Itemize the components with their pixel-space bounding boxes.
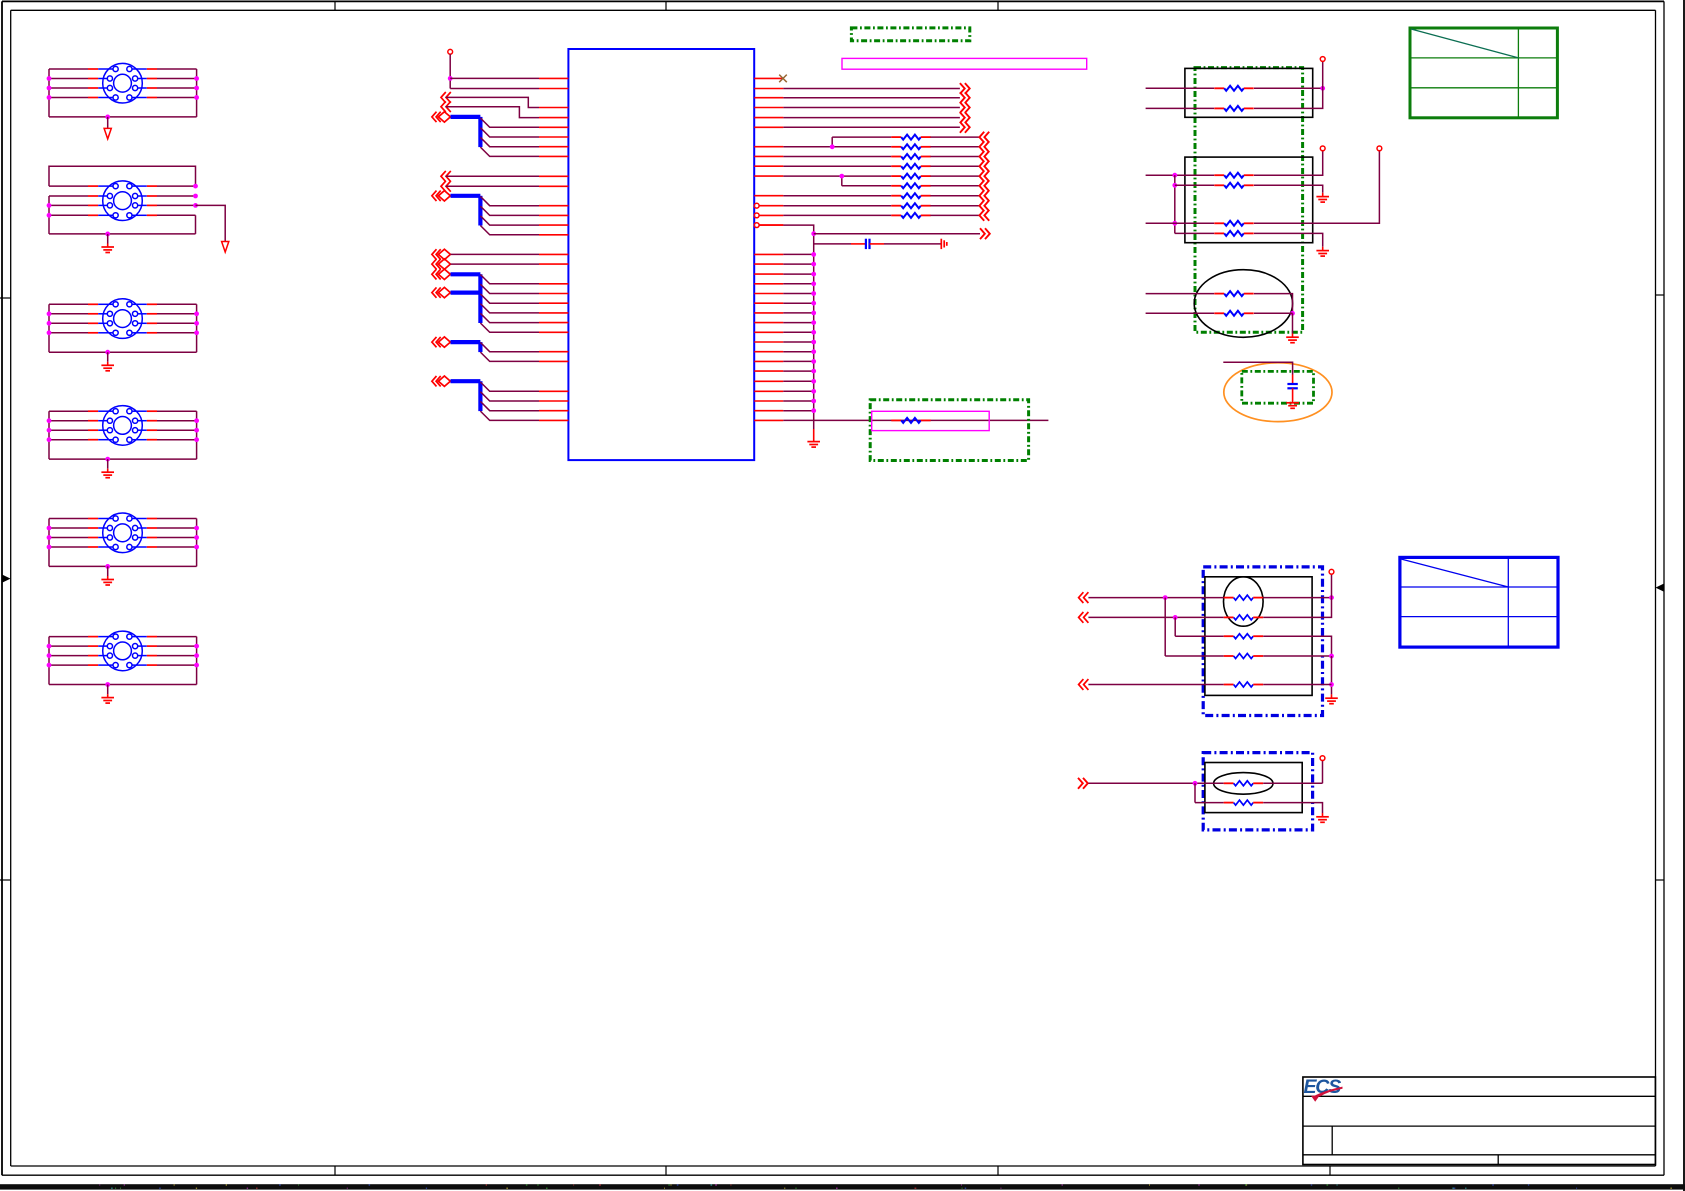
sheet border inner bottom	[11, 1165, 1656, 1167]
page bottom bar	[0, 1184, 1685, 1189]
bus wire vertical	[478, 117, 482, 147]
wire T6 left edge	[48, 637, 50, 685]
wire	[1263, 684, 1331, 686]
wire T2 row2	[49, 195, 196, 197]
wire	[446, 185, 539, 187]
wire	[446, 97, 539, 107]
ground	[1325, 698, 1338, 704]
wire fan	[480, 196, 539, 205]
resistor RN1b	[1214, 106, 1253, 111]
resistor RN4b	[1224, 615, 1263, 620]
wire fan	[480, 294, 539, 303]
wire T5 row2	[49, 527, 197, 529]
wire red tail	[1322, 813, 1324, 816]
wire T6 gnd stem	[107, 685, 109, 698]
resistor RN2c	[1214, 221, 1253, 226]
junction T5	[194, 545, 199, 550]
off-page connector in	[432, 259, 451, 269]
wire red tail	[1292, 333, 1294, 336]
pin stub left	[539, 312, 568, 314]
wire	[783, 322, 813, 324]
pin stub left	[539, 175, 568, 177]
junction	[811, 301, 816, 306]
junction	[1320, 86, 1325, 91]
pin stub left	[539, 185, 568, 187]
off-page connector out	[960, 112, 970, 123]
bus wire	[451, 115, 481, 119]
pin stub left	[539, 322, 568, 324]
pin circle right	[754, 203, 759, 208]
wire	[1088, 684, 1223, 686]
junction	[811, 272, 816, 277]
wire T3 row4	[49, 332, 197, 334]
junction T4	[47, 418, 52, 423]
off-page connector in	[979, 171, 989, 182]
wire	[1254, 87, 1323, 89]
wire T4 left edge	[48, 411, 50, 459]
highlight ellipse orange	[1224, 363, 1332, 422]
wire T2 bottom edge	[49, 233, 196, 235]
wire	[930, 136, 979, 138]
resistor RN1a	[1214, 86, 1253, 91]
pin stub right	[754, 302, 783, 304]
wire	[930, 214, 979, 216]
pin stub right	[754, 117, 783, 119]
resistor RN4c	[1224, 634, 1263, 639]
wire T5 row3	[49, 537, 197, 539]
pin stub left	[539, 234, 568, 236]
pin stub left	[539, 302, 568, 304]
ground T3	[101, 365, 114, 371]
junction T6	[47, 644, 52, 649]
off-page connector out arrow	[1078, 778, 1088, 789]
bus wire vertical	[478, 342, 482, 352]
wire jog	[841, 176, 843, 186]
wire T6 row1	[49, 636, 197, 638]
junction T3	[194, 321, 199, 326]
wire	[783, 312, 813, 314]
pin stub right	[754, 351, 783, 353]
wire	[783, 253, 813, 255]
junction	[1172, 173, 1177, 178]
junction T3	[47, 330, 52, 335]
power tap circle	[1320, 57, 1325, 62]
sheet border outer right	[1663, 1, 1665, 1175]
resistor ladder R8	[891, 203, 930, 208]
off-page connector in	[979, 141, 989, 152]
junction T1	[47, 95, 52, 100]
off-page connector out	[960, 102, 970, 113]
magnetics choke T2	[103, 181, 143, 221]
IC U1 body	[568, 49, 754, 460]
ground	[1286, 337, 1299, 343]
junction	[811, 330, 816, 335]
pin stub right	[754, 380, 783, 382]
pin stub right	[754, 341, 783, 343]
wire T6 right edge	[196, 637, 198, 685]
pin stub left	[539, 146, 568, 148]
wire jog	[831, 137, 833, 147]
pin stub left	[539, 224, 568, 226]
power arrow T2 side	[222, 242, 229, 253]
wire T6 row3	[49, 655, 197, 657]
wire	[783, 370, 813, 372]
wire fan	[480, 392, 539, 401]
DNP box green	[851, 28, 969, 41]
wire	[1263, 803, 1322, 813]
wire cap lead	[870, 243, 885, 245]
off-page connector in	[979, 210, 989, 221]
ground T2	[101, 247, 114, 253]
ground	[1316, 817, 1329, 823]
junction T2	[193, 184, 198, 189]
wire left common	[1174, 175, 1176, 233]
wire fan	[480, 216, 539, 225]
wire T5 gnd stem	[107, 566, 109, 579]
zone tick top	[665, 1, 667, 10]
bus wire	[451, 194, 481, 198]
resistor pack RN5 box	[1205, 763, 1302, 813]
wire	[832, 136, 891, 138]
wire	[1146, 293, 1215, 295]
resistor pack RN3 ellipse	[1194, 270, 1292, 338]
junction T6	[194, 644, 199, 649]
pin stub left	[539, 136, 568, 138]
power tap circle	[1320, 756, 1325, 761]
wire	[1263, 655, 1331, 657]
ground	[1316, 197, 1329, 203]
resistor pack RN5 ellipse	[1214, 773, 1273, 795]
wire	[930, 195, 979, 197]
resistor series R10	[891, 418, 930, 423]
wire	[1254, 312, 1293, 314]
off-page connector in	[979, 132, 989, 143]
wire T3 gnd stem	[107, 352, 109, 365]
wire out	[783, 117, 960, 119]
wire fan	[480, 284, 539, 293]
pin stub left	[539, 107, 568, 109]
wire	[1165, 655, 1224, 657]
resistor RN2a	[1214, 173, 1253, 178]
junction T4 gnd	[105, 457, 110, 462]
table green	[1410, 28, 1557, 118]
wire	[783, 175, 891, 177]
resistor ladder R6	[891, 183, 930, 188]
sheet border outer left	[1, 1, 3, 1175]
off-page connector bus	[432, 337, 451, 347]
junction T2	[47, 203, 52, 208]
wire T6 row2	[49, 645, 197, 647]
pin stub left	[539, 214, 568, 216]
bus wire	[451, 291, 481, 295]
junction T2	[193, 203, 198, 208]
pin stub left	[539, 253, 568, 255]
junction	[811, 311, 816, 316]
wire red tail	[1331, 694, 1333, 697]
bus wire vertical	[478, 274, 482, 323]
wire	[814, 243, 851, 245]
wire	[930, 156, 979, 158]
wire	[1263, 598, 1331, 618]
pin stub right	[754, 283, 783, 285]
wire	[783, 331, 813, 333]
zone tick top	[334, 1, 336, 10]
wire out	[783, 88, 960, 90]
junction	[811, 369, 816, 374]
bus wire	[451, 379, 481, 383]
wire	[814, 233, 980, 235]
wire	[783, 146, 891, 148]
wire	[1175, 635, 1224, 637]
wire	[759, 224, 783, 226]
wire	[884, 243, 941, 245]
junction T6	[194, 663, 199, 668]
ground bus	[807, 442, 820, 448]
center marker arrow right	[1656, 584, 1665, 592]
junction T3	[194, 330, 199, 335]
junction T1	[194, 86, 199, 91]
junction T6	[47, 653, 52, 658]
junction T1 gnd	[105, 115, 110, 120]
wire T2 row1	[49, 185, 196, 187]
resistor pack RN4 box	[1205, 577, 1312, 696]
resistor RN4e	[1224, 682, 1263, 687]
wire fan	[480, 128, 539, 137]
junction T4	[194, 418, 199, 423]
junction	[1290, 311, 1295, 316]
wire	[1175, 232, 1214, 234]
pin stub right	[754, 155, 783, 157]
off-page connector in	[979, 190, 989, 201]
ground	[1316, 251, 1329, 257]
wire T5 row1	[49, 518, 197, 520]
wire T2 gnd stem	[107, 234, 109, 247]
pin stub left	[539, 88, 568, 90]
resistor RN2b	[1214, 183, 1253, 188]
junction T2	[193, 194, 198, 199]
junction	[811, 359, 816, 364]
junction	[811, 231, 816, 236]
junction	[811, 408, 816, 413]
pin stub left	[539, 331, 568, 333]
junction	[811, 340, 816, 345]
junction T5	[194, 526, 199, 531]
wire fan	[480, 401, 539, 410]
wire bus right	[783, 225, 813, 429]
junction T3	[47, 311, 52, 316]
wire T3 row1	[49, 303, 197, 305]
resistor ladder R2	[891, 144, 930, 149]
wire fan	[480, 323, 539, 332]
wire	[451, 263, 540, 265]
wire fan	[480, 382, 539, 391]
wire	[783, 273, 813, 275]
junction T4	[47, 437, 52, 442]
wire	[1223, 362, 1292, 374]
wire T5 left edge	[48, 519, 50, 567]
junction T1	[194, 76, 199, 81]
resistor pack RN1 box	[1185, 68, 1313, 117]
wire to pin	[450, 88, 539, 90]
power tap circle	[1329, 569, 1334, 574]
wire	[1331, 656, 1333, 694]
wire T2 row3	[49, 204, 196, 206]
pin stub right	[754, 273, 783, 275]
resistor RN3a	[1214, 291, 1253, 296]
wire T2 side branch	[196, 205, 226, 241]
wire	[930, 146, 979, 148]
wire	[1088, 782, 1223, 784]
wire	[1195, 802, 1224, 804]
junction	[830, 144, 835, 149]
wire fan	[480, 206, 539, 215]
wire	[930, 175, 979, 177]
junction T5	[194, 535, 199, 540]
pin stub left	[539, 390, 568, 392]
zone tick right	[1656, 294, 1665, 296]
wire	[446, 107, 539, 118]
wire T4 row2	[49, 420, 197, 422]
ground rotated	[941, 239, 947, 249]
off-page connector in	[441, 101, 451, 112]
page edge right	[1683, 0, 1685, 1191]
wire T5 bottom edge	[49, 565, 197, 567]
ECS logo	[1304, 1076, 1343, 1102]
junction T1	[47, 76, 52, 81]
wire	[1254, 151, 1379, 224]
wire	[783, 195, 891, 197]
junction	[448, 76, 453, 81]
wire T1 row4	[49, 97, 197, 99]
junction	[811, 320, 816, 325]
junction	[1163, 595, 1168, 600]
wire	[1254, 88, 1323, 108]
wire red tail	[1322, 247, 1324, 250]
off-page connector out	[960, 92, 970, 103]
magnetics choke T4	[103, 406, 143, 446]
pin stub right	[754, 360, 783, 362]
wire out	[783, 97, 960, 99]
termination box blue dash 1	[1203, 567, 1322, 716]
zone tick bottom	[665, 1166, 667, 1175]
power tap circle	[1320, 146, 1325, 151]
wire	[930, 165, 979, 167]
pin stub right	[754, 263, 783, 265]
resistor RN4a	[1224, 595, 1263, 600]
wire	[1263, 782, 1322, 784]
wire fan	[480, 275, 539, 284]
wire fan	[480, 342, 539, 351]
pin stub left	[539, 117, 568, 119]
sheet border inner top	[11, 9, 1656, 11]
wire T1 down stem	[107, 117, 109, 128]
wire T1 bottom edge	[49, 116, 197, 118]
DNP box green tall	[1195, 68, 1303, 333]
pin stub right	[759, 205, 783, 207]
pin stub left	[539, 205, 568, 207]
wire T4 gnd stem	[107, 459, 109, 472]
resistor pack RN2 box	[1185, 157, 1313, 243]
wire	[783, 341, 813, 343]
off-page connector bus	[432, 191, 451, 201]
ground	[1286, 403, 1299, 409]
junction T4	[47, 428, 52, 433]
wire out	[783, 126, 960, 128]
off-page connector in	[979, 151, 989, 162]
zone tick left	[0, 297, 11, 299]
pin stub left	[539, 351, 568, 353]
wire T2 top box	[49, 166, 196, 186]
wire	[783, 263, 813, 265]
power tap circle	[448, 49, 453, 54]
junction T3	[47, 321, 52, 326]
wire	[783, 351, 813, 353]
junction T4	[194, 428, 199, 433]
wire	[1088, 616, 1223, 618]
wire fan	[480, 313, 539, 322]
pin stub right	[754, 322, 783, 324]
wire	[842, 185, 892, 187]
wire T1 row2	[49, 78, 197, 80]
resistor ladder R7	[891, 193, 930, 198]
ground T6	[101, 698, 114, 704]
resistor RN5a	[1224, 781, 1263, 786]
wire long	[783, 419, 1048, 421]
power arrow T1	[104, 128, 111, 139]
junction T1	[47, 86, 52, 91]
wire fan	[480, 411, 539, 420]
off-page connector in	[979, 180, 989, 191]
wire	[783, 283, 813, 285]
junction	[1329, 682, 1334, 687]
wire pullup	[1331, 574, 1333, 597]
off-page connector out	[980, 228, 990, 239]
center marker arrow left	[2, 575, 11, 583]
wire T1 row3	[49, 87, 197, 89]
pin stub left	[539, 400, 568, 402]
junction T1	[194, 95, 199, 100]
junction T2	[47, 213, 52, 218]
net box pink 2	[872, 411, 990, 430]
wire to pin	[450, 77, 539, 79]
pin stub right	[754, 175, 783, 177]
wire	[783, 400, 813, 402]
junction	[811, 379, 816, 384]
junction	[811, 399, 816, 404]
magnetics choke T1	[103, 63, 143, 103]
wire	[1254, 151, 1323, 175]
off-page connector bus	[432, 376, 451, 386]
pin stub left	[539, 155, 568, 157]
off-page connector in	[441, 92, 451, 103]
off-page connector in	[979, 200, 989, 211]
junction	[1329, 654, 1334, 659]
junction	[811, 262, 816, 267]
junction T4	[194, 437, 199, 442]
junction	[1172, 221, 1177, 226]
off-page connector bus	[432, 269, 451, 279]
pin stub left	[539, 283, 568, 285]
junction T6 gnd	[105, 682, 110, 687]
off-page connector in	[441, 181, 451, 192]
wire power vertical	[449, 54, 451, 88]
zone tick top	[997, 1, 999, 10]
pin stub right	[754, 77, 783, 79]
resistor RN2d	[1214, 231, 1253, 236]
junction	[1173, 615, 1178, 620]
pin stub left	[539, 293, 568, 295]
wire T4 row3	[49, 429, 197, 431]
